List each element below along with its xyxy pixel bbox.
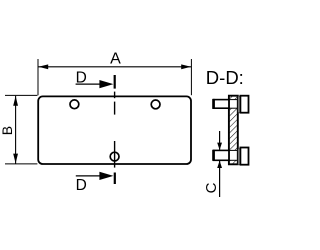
dimension A extension line left bbox=[37, 59, 39, 95]
hole bottom-center bbox=[110, 152, 119, 161]
dimension C upper arrowhead (down) bbox=[217, 143, 222, 150]
top stud shank lines through plate bbox=[229, 99, 238, 101]
top stud end cap bbox=[212, 99, 215, 109]
dimension C upper line bbox=[219, 131, 221, 150]
svg-text:D: D bbox=[76, 70, 87, 87]
dimension A arrow right bbox=[181, 64, 191, 69]
section view: hatch zone between studs bbox=[230, 108, 237, 150]
section view: plate bar outline bbox=[229, 96, 238, 165]
bottom washer strip bbox=[238, 149, 240, 165]
svg-text:A: A bbox=[110, 51, 121, 68]
hole top-right bbox=[151, 100, 160, 109]
svg-text:D: D bbox=[76, 177, 87, 194]
centerline through bottom hole bbox=[114, 141, 116, 168]
dimension C lower arrowhead (up) bbox=[217, 161, 222, 168]
dimension C lower line bbox=[219, 161, 221, 197]
section line D top dashes bbox=[114, 92, 116, 99]
section arrow D top: leader line bbox=[76, 83, 101, 85]
section view: hatch zone above top stud bbox=[230, 97, 237, 100]
dimension A extension line right bbox=[190, 59, 192, 95]
svg-text:B: B bbox=[0, 126, 15, 135]
plate outline (front view) bbox=[38, 96, 191, 164]
dimension B arrow bottom bbox=[13, 154, 18, 164]
svg-text:C: C bbox=[203, 182, 220, 193]
top stud shaft bbox=[214, 100, 229, 109]
section view: hatch zone below bottom stud bbox=[230, 160, 237, 163]
bottom stud end cap bbox=[212, 150, 215, 161]
top screw head bbox=[240, 96, 248, 113]
dimension B extension line bottom bbox=[5, 163, 37, 165]
bottom screw head bbox=[240, 148, 248, 165]
dimension A arrow left bbox=[38, 64, 48, 69]
section tick D bottom bbox=[114, 173, 116, 185]
section tick D top bbox=[114, 75, 116, 89]
bottom stud shaft bbox=[214, 150, 229, 160]
top washer strip bbox=[238, 96, 240, 112]
hole top-left bbox=[70, 100, 79, 109]
section arrow D top: arrowhead bbox=[99, 80, 113, 88]
dimension B line bbox=[15, 96, 17, 164]
bottom stud shank lines through plate bbox=[229, 149, 238, 151]
section arrow D bottom: arrowhead bbox=[99, 172, 113, 180]
svg-text:D-D:: D-D: bbox=[206, 67, 244, 88]
section view: plate bar white fill bbox=[229, 96, 238, 165]
dimension B extension line top bbox=[5, 94, 37, 96]
dimension B arrow top bbox=[13, 96, 18, 106]
section arrow D bottom: leader line bbox=[76, 175, 101, 177]
dimension A line bbox=[38, 66, 191, 68]
